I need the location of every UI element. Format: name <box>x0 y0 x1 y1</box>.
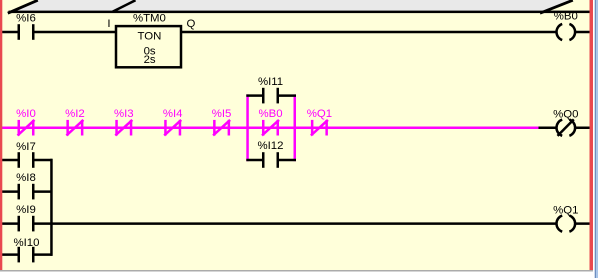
contact %I3 (NC) <box>114 108 134 135</box>
wire rung1 to coil <box>181 31 557 34</box>
wire rung3 main to coil <box>35 222 558 225</box>
wire rung3 coil to rail <box>574 222 592 225</box>
contact %B0 (NC) <box>258 108 282 135</box>
wire rung3 row4 right <box>35 253 53 256</box>
wire branch top left <box>246 94 262 97</box>
wire rung2 black segment to coil <box>539 126 558 129</box>
rung3 or-branch vertical <box>50 159 53 256</box>
right power rail <box>590 0 594 270</box>
wire rung3 row2 left <box>0 190 18 193</box>
left power rail <box>0 0 2 270</box>
svg-text:%I9: %I9 <box>16 204 36 216</box>
svg-text:%I7: %I7 <box>16 141 36 153</box>
svg-text:%Q0: %Q0 <box>553 108 578 120</box>
contact %I11 <box>258 76 283 103</box>
previous rung diagonal mark 1 <box>8 0 38 13</box>
contact %I7 <box>16 141 36 168</box>
previous rung diagonal mark 3 <box>540 0 573 13</box>
timer U %TM0 <box>107 12 195 67</box>
svg-text:%B0: %B0 <box>554 11 578 23</box>
wire rung2 main (magenta) <box>0 126 539 129</box>
wire rung1 to timer <box>35 31 117 34</box>
svg-text:%Q1: %Q1 <box>553 204 578 216</box>
svg-text:TON: TON <box>137 31 161 43</box>
wire rung3 row2 right <box>35 190 53 193</box>
svg-text:%I6: %I6 <box>16 12 36 24</box>
svg-text:Q: Q <box>187 18 196 30</box>
contact %I4 (NC) <box>163 108 183 135</box>
contact %I6 <box>16 12 36 39</box>
previous-rung gray band <box>11 0 572 11</box>
wire rung1 coil to rail <box>574 31 592 34</box>
wire rung3 row3 left <box>0 222 18 225</box>
wire rung2 coil to rail <box>574 126 592 129</box>
wire branch bottom left <box>246 159 262 162</box>
svg-text:%B0: %B0 <box>258 108 282 120</box>
previous rung rail line <box>9 11 592 14</box>
contact %I8 <box>16 172 36 200</box>
svg-text:%TM0: %TM0 <box>133 12 166 24</box>
svg-text:%I5: %I5 <box>212 108 232 120</box>
svg-text:%I8: %I8 <box>16 172 36 184</box>
wire branch bottom right <box>279 159 296 162</box>
bottom margin <box>0 272 595 278</box>
contact %I0 (NC) <box>16 108 36 135</box>
contact %I10 <box>14 237 40 263</box>
svg-text:%I11: %I11 <box>258 76 283 88</box>
coil %B0 <box>554 11 578 40</box>
svg-text:%I12: %I12 <box>258 140 284 152</box>
wire rung3 row4 left <box>0 253 18 256</box>
svg-text:I: I <box>107 18 110 30</box>
svg-text:2s: 2s <box>144 54 156 66</box>
svg-text:%I3: %I3 <box>114 108 134 120</box>
previous rung diagonal mark 2 <box>113 0 136 12</box>
svg-text:%I0: %I0 <box>16 108 36 120</box>
branch vertical left <box>246 94 249 161</box>
contact %I12 <box>258 140 284 168</box>
coil %Q1 <box>553 204 578 231</box>
contact %Q1 (NC) <box>307 108 332 135</box>
right window edge <box>593 0 595 278</box>
svg-text:%I4: %I4 <box>163 108 183 120</box>
wire rung1 left <box>0 31 18 34</box>
svg-text:%Q1: %Q1 <box>307 108 332 120</box>
contact %I2 (NC) <box>65 108 85 135</box>
coil %Q0 (negated) <box>553 108 578 136</box>
wire branch top right <box>279 94 296 97</box>
contact %I5 (NC) <box>212 108 232 135</box>
contact %I9 <box>16 204 36 232</box>
svg-text:%I10: %I10 <box>14 237 40 249</box>
wire rung3 row1 left <box>0 159 18 162</box>
svg-text:%I2: %I2 <box>65 108 85 120</box>
wire rung3 row1 right <box>35 159 53 162</box>
branch vertical right <box>294 94 297 161</box>
bottom divider <box>0 270 595 272</box>
